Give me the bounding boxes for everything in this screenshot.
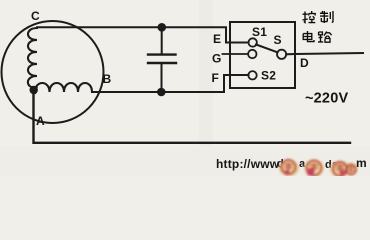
label D — [300, 56, 309, 70]
label A — [36, 114, 45, 128]
label 制 hand-drawn — [320, 11, 333, 23]
svg-text:C: C — [31, 9, 40, 23]
svg-text:S1: S1 — [252, 25, 267, 39]
svg-text:http://www.: http://www. — [216, 157, 282, 171]
junction node bottom (cap/B wire) — [157, 88, 166, 97]
switch blade S1-S — [256, 45, 278, 53]
watermark dark m — [356, 156, 367, 170]
wire: S common to control circuit (D) — [286, 53, 363, 54]
label ~220V — [305, 91, 348, 107]
label S1 — [252, 25, 267, 39]
svg-text:A: A — [36, 114, 45, 128]
svg-text:F: F — [212, 71, 220, 85]
label 电 hand-drawn — [303, 31, 314, 42]
label 控 hand-drawn — [303, 11, 316, 23]
svg-text:E: E — [213, 32, 221, 46]
winding A-B (aux, horizontal coil) — [35, 83, 93, 92]
junction node A (windings) — [30, 86, 38, 94]
capacitor C1 plates — [148, 55, 176, 63]
wire: B wire to F corner — [92, 75, 249, 92]
svg-text:B: B — [103, 72, 112, 86]
label 路 hand-drawn — [318, 32, 332, 43]
wire: G stub tick — [223, 53, 249, 55]
svg-text:G: G — [212, 52, 222, 66]
label G — [212, 52, 222, 66]
winding C-A (main, vertical coil) — [28, 28, 37, 90]
contact G terminal circle — [248, 50, 256, 58]
label B — [103, 72, 112, 86]
label F — [212, 71, 220, 85]
svg-text:S2: S2 — [261, 69, 276, 83]
svg-text:D: D — [300, 56, 309, 70]
svg-text:S: S — [274, 33, 282, 47]
wire: top wire C to E corner — [37, 27, 249, 42]
watermark gray letters — [277, 158, 338, 171]
svg-text:~220V: ~220V — [305, 91, 348, 107]
wire: A down lead and bottom line — [34, 90, 351, 143]
label S — [274, 33, 282, 47]
label C — [31, 9, 40, 23]
label S2 — [261, 69, 276, 83]
label E — [213, 32, 221, 46]
capacitor C1 bottom lead — [161, 64, 163, 92]
contact S common circle — [277, 50, 286, 59]
svg-text:m: m — [356, 156, 367, 170]
junction node top (cap/top wire) — [158, 23, 167, 32]
contact S2 (F terminal circle) — [248, 71, 256, 79]
contact S1 (E terminal circle) — [249, 38, 257, 46]
watermark http://www — [216, 157, 282, 171]
motor M (stator circle) — [2, 21, 104, 123]
capacitor C1 top lead — [161, 27, 163, 53]
switch box outline — [230, 22, 295, 88]
